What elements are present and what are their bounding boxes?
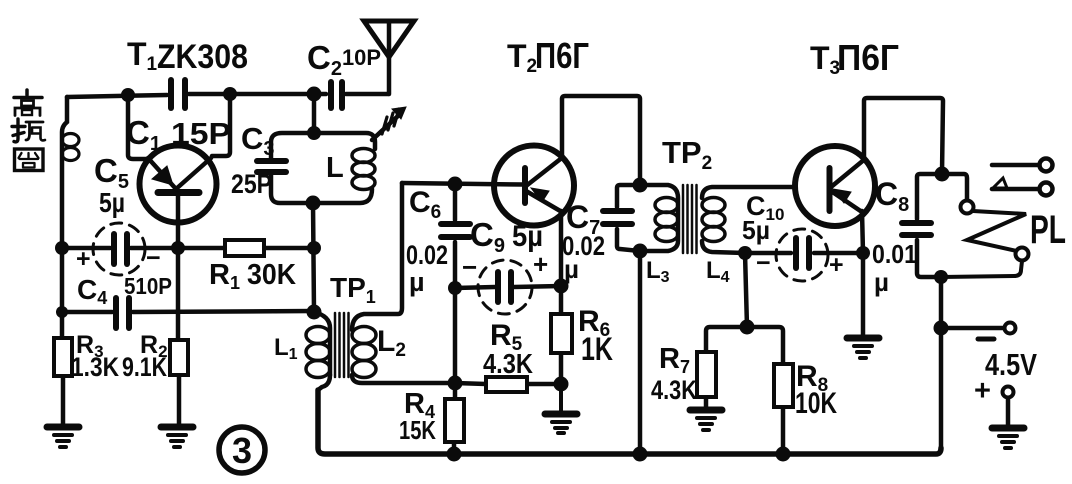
wire row y312 [62, 311, 314, 312]
node TP2 bottom [633, 244, 648, 259]
wire T2 emitter drop [559, 211, 564, 285]
svg-text:TP2: TP2 [662, 135, 712, 174]
svg-text:ZK308: ZK308 [157, 38, 248, 76]
wire R2 branch [178, 248, 179, 425]
svg-text:+: + [974, 375, 991, 407]
node R1 right [307, 241, 321, 255]
svg-text:µ: µ [409, 267, 425, 297]
node top antenna tap [307, 87, 322, 102]
node battery minus [934, 321, 949, 336]
circled 3 ring [219, 427, 265, 473]
svg-text:R1: R1 [209, 259, 240, 293]
svg-text:L2: L2 [377, 325, 406, 361]
arrow variable core [372, 107, 406, 140]
capacitor C2 [331, 82, 342, 108]
ground R3 [47, 427, 79, 447]
wire TP2 primary bottom riser [638, 251, 643, 454]
capacitor C9 electrolytic [455, 260, 561, 314]
svg-text:L4: L4 [706, 257, 730, 286]
svg-text:0.01: 0.01 [872, 239, 917, 269]
node C6 C9 [448, 281, 462, 295]
node tank bottom [306, 196, 321, 211]
node top C1 left [121, 88, 135, 102]
node dots [55, 87, 950, 462]
svg-text:TP1: TP1 [330, 272, 376, 307]
svg-text:T2: T2 [507, 38, 537, 77]
svg-text:+: + [533, 249, 548, 279]
svg-text:П6Г: П6Г [535, 35, 589, 76]
wire base row y248 [62, 246, 314, 251]
wire antenna tap riser [312, 94, 317, 133]
svg-text:30K: 30K [247, 259, 296, 291]
node C5 left [55, 241, 69, 255]
resistor R1 [225, 240, 264, 256]
svg-text:C2: C2 [307, 39, 342, 80]
svg-text:П6Г: П6Г [837, 37, 899, 78]
svg-text:PL: PL [1030, 208, 1066, 252]
node R4 top [448, 376, 463, 391]
svg-text:+: + [76, 245, 91, 273]
wire tank bottom riser [313, 203, 314, 312]
svg-text:15K: 15K [399, 415, 436, 445]
node bus R8 [776, 447, 791, 462]
svg-text:0.02: 0.02 [406, 240, 448, 270]
svg-text:C1: C1 [126, 114, 161, 155]
svg-text:510P: 510P [124, 273, 172, 299]
svg-text:+: + [829, 251, 844, 279]
svg-text:5µ: 5µ [99, 187, 125, 218]
svg-text:−: − [756, 249, 771, 277]
wire T3 emitter drop [862, 211, 863, 253]
transistor T2 [494, 146, 574, 226]
tank circuit L C3 [257, 133, 375, 203]
wire top bus left segment [67, 95, 167, 97]
resistor R6 [551, 286, 572, 384]
resistor R4 [445, 383, 464, 455]
svg-text:µ: µ [564, 254, 579, 284]
svg-text:C3: C3 [241, 121, 275, 160]
svg-text:5µ: 5µ [742, 215, 770, 245]
node R6 bottom [554, 377, 569, 392]
capacitor C10 electrolytic [745, 229, 863, 281]
wire T2 collector riser and jumper [562, 96, 640, 185]
resistor R5 [455, 377, 561, 392]
svg-text:µ: µ [874, 267, 889, 297]
svg-text:R7: R7 [659, 343, 690, 377]
wire top right to antenna riser [346, 92, 388, 97]
wire R3 branch [62, 310, 63, 425]
choke coil loops [62, 134, 79, 147]
svg-text:15P: 15P [171, 116, 231, 151]
wire C10 down to R7 R8 row [745, 253, 747, 327]
capacitor C4 [116, 298, 129, 328]
node T3 collector out [935, 167, 950, 182]
svg-text:9.1K: 9.1K [122, 352, 167, 382]
capacitor C6 [441, 183, 470, 288]
wire C1 frame right [212, 94, 230, 156]
svg-text:4.5V: 4.5V [985, 347, 1037, 382]
svg-text:4.3K: 4.3K [483, 348, 533, 379]
node TP2 top [633, 178, 648, 193]
svg-text:C9: C9 [470, 216, 505, 257]
wire T3 collector riser and jumper [864, 98, 943, 174]
svg-text:1K: 1K [581, 331, 613, 367]
node R7 R8 junction [740, 320, 755, 335]
transformer TP1 [306, 183, 455, 448]
antenna [364, 21, 414, 94]
transistor T1 [140, 146, 217, 249]
svg-text:L1: L1 [274, 334, 298, 363]
resistor R8 [774, 364, 793, 407]
capacitor C8 [902, 174, 942, 277]
svg-text:C6: C6 [409, 186, 441, 223]
wire bottom bus [318, 390, 941, 454]
ground R6 [545, 384, 577, 433]
node TP1 top [307, 305, 322, 320]
capacitor C1 [171, 80, 185, 108]
node top C1 right [223, 87, 237, 101]
node C10 right [856, 246, 870, 260]
wire C1 frame left [128, 95, 146, 159]
svg-text:C4: C4 [77, 274, 107, 308]
node T1 base [171, 241, 185, 255]
node C10 left [738, 246, 752, 260]
node C4 left [56, 306, 68, 318]
svg-text:25P: 25P [231, 169, 272, 199]
resistor R3 [54, 338, 72, 376]
wire C6 to R4 node [453, 288, 458, 383]
transistor T3 [795, 146, 875, 226]
svg-text:L: L [326, 152, 344, 184]
chinese label gao e quan [12, 90, 45, 171]
node tank top [307, 126, 321, 140]
node C8 bottom PL [934, 270, 948, 284]
ground R7 [690, 410, 722, 430]
resistor R2 [170, 340, 188, 375]
wire PL bottom to battery node [939, 277, 944, 328]
svg-text:−: − [146, 244, 161, 272]
wire left vertical with choke [62, 97, 67, 310]
ground emitter T3 [847, 338, 879, 358]
svg-text:1.3K: 1.3K [71, 352, 119, 382]
wire top bus middle segment [189, 92, 326, 97]
svg-text:4.3K: 4.3K [651, 375, 697, 405]
svg-text:10K: 10K [795, 387, 837, 420]
wire T2 base row [402, 183, 523, 185]
svg-text:T1: T1 [127, 36, 158, 75]
svg-text:−: − [462, 252, 477, 282]
svg-text:C8: C8 [875, 176, 909, 216]
battery terminals [941, 323, 1016, 428]
wire battery node down to bus [939, 328, 944, 448]
ground R2 [161, 427, 193, 447]
phone jack PL [941, 159, 1053, 278]
node bus R4 [447, 447, 462, 462]
ground battery [992, 428, 1024, 448]
capacitor C5 electrolytic [93, 223, 145, 275]
wire R8 branch [747, 327, 783, 454]
wire emitter ground stub [861, 253, 866, 337]
svg-text:L3: L3 [646, 257, 670, 286]
node bus TP2 [633, 447, 648, 462]
node C6 top [448, 177, 463, 192]
capacitor C7 [603, 185, 640, 251]
wire R7 branch [706, 327, 747, 409]
svg-text:10P: 10P [342, 45, 381, 70]
svg-text:3: 3 [232, 430, 252, 471]
transformer TP2 [640, 185, 795, 253]
svg-text:T3: T3 [810, 40, 840, 79]
resistor R7 [697, 352, 716, 397]
node C9 right emitter [554, 279, 569, 294]
